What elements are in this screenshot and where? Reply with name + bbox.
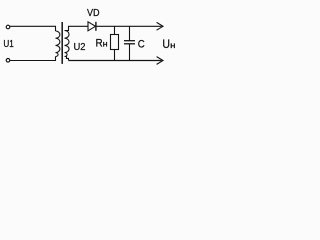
wire capacitor bottom [129,44,131,61]
capacitor C bottom plate [124,43,135,45]
arrow bottom output [157,57,163,65]
arrow top output [157,22,163,30]
transformer T1 primary winding [56,31,60,57]
svg-text:н: н [170,40,176,50]
wire resistor top [114,26,116,34]
svg-text:R: R [96,38,103,50]
resistor Rн body [111,35,119,50]
capacitor C top plate [124,40,135,42]
svg-text:U: U [162,37,170,51]
terminal input bottom [6,59,10,63]
diode VD cathode bar [95,22,97,31]
wire secondary bottom [65,57,69,61]
transformer T1 secondary winding [65,31,70,57]
wire bottom-left [10,57,56,61]
wire capacitor top [129,26,131,40]
svg-text:C: C [138,39,145,51]
wire resistor bottom [114,50,116,61]
diode VD triangle [88,22,96,31]
transformer core [61,22,63,64]
svg-text:U1: U1 [3,39,14,50]
terminal input top [6,25,10,29]
svg-text:VD: VD [87,7,100,19]
wire bottom rail [69,60,162,62]
svg-text:н: н [103,39,108,49]
wire secondary top [65,26,89,30]
svg-text:U2: U2 [74,42,86,53]
wire top rail [96,25,162,27]
wire top-left [10,26,56,31]
